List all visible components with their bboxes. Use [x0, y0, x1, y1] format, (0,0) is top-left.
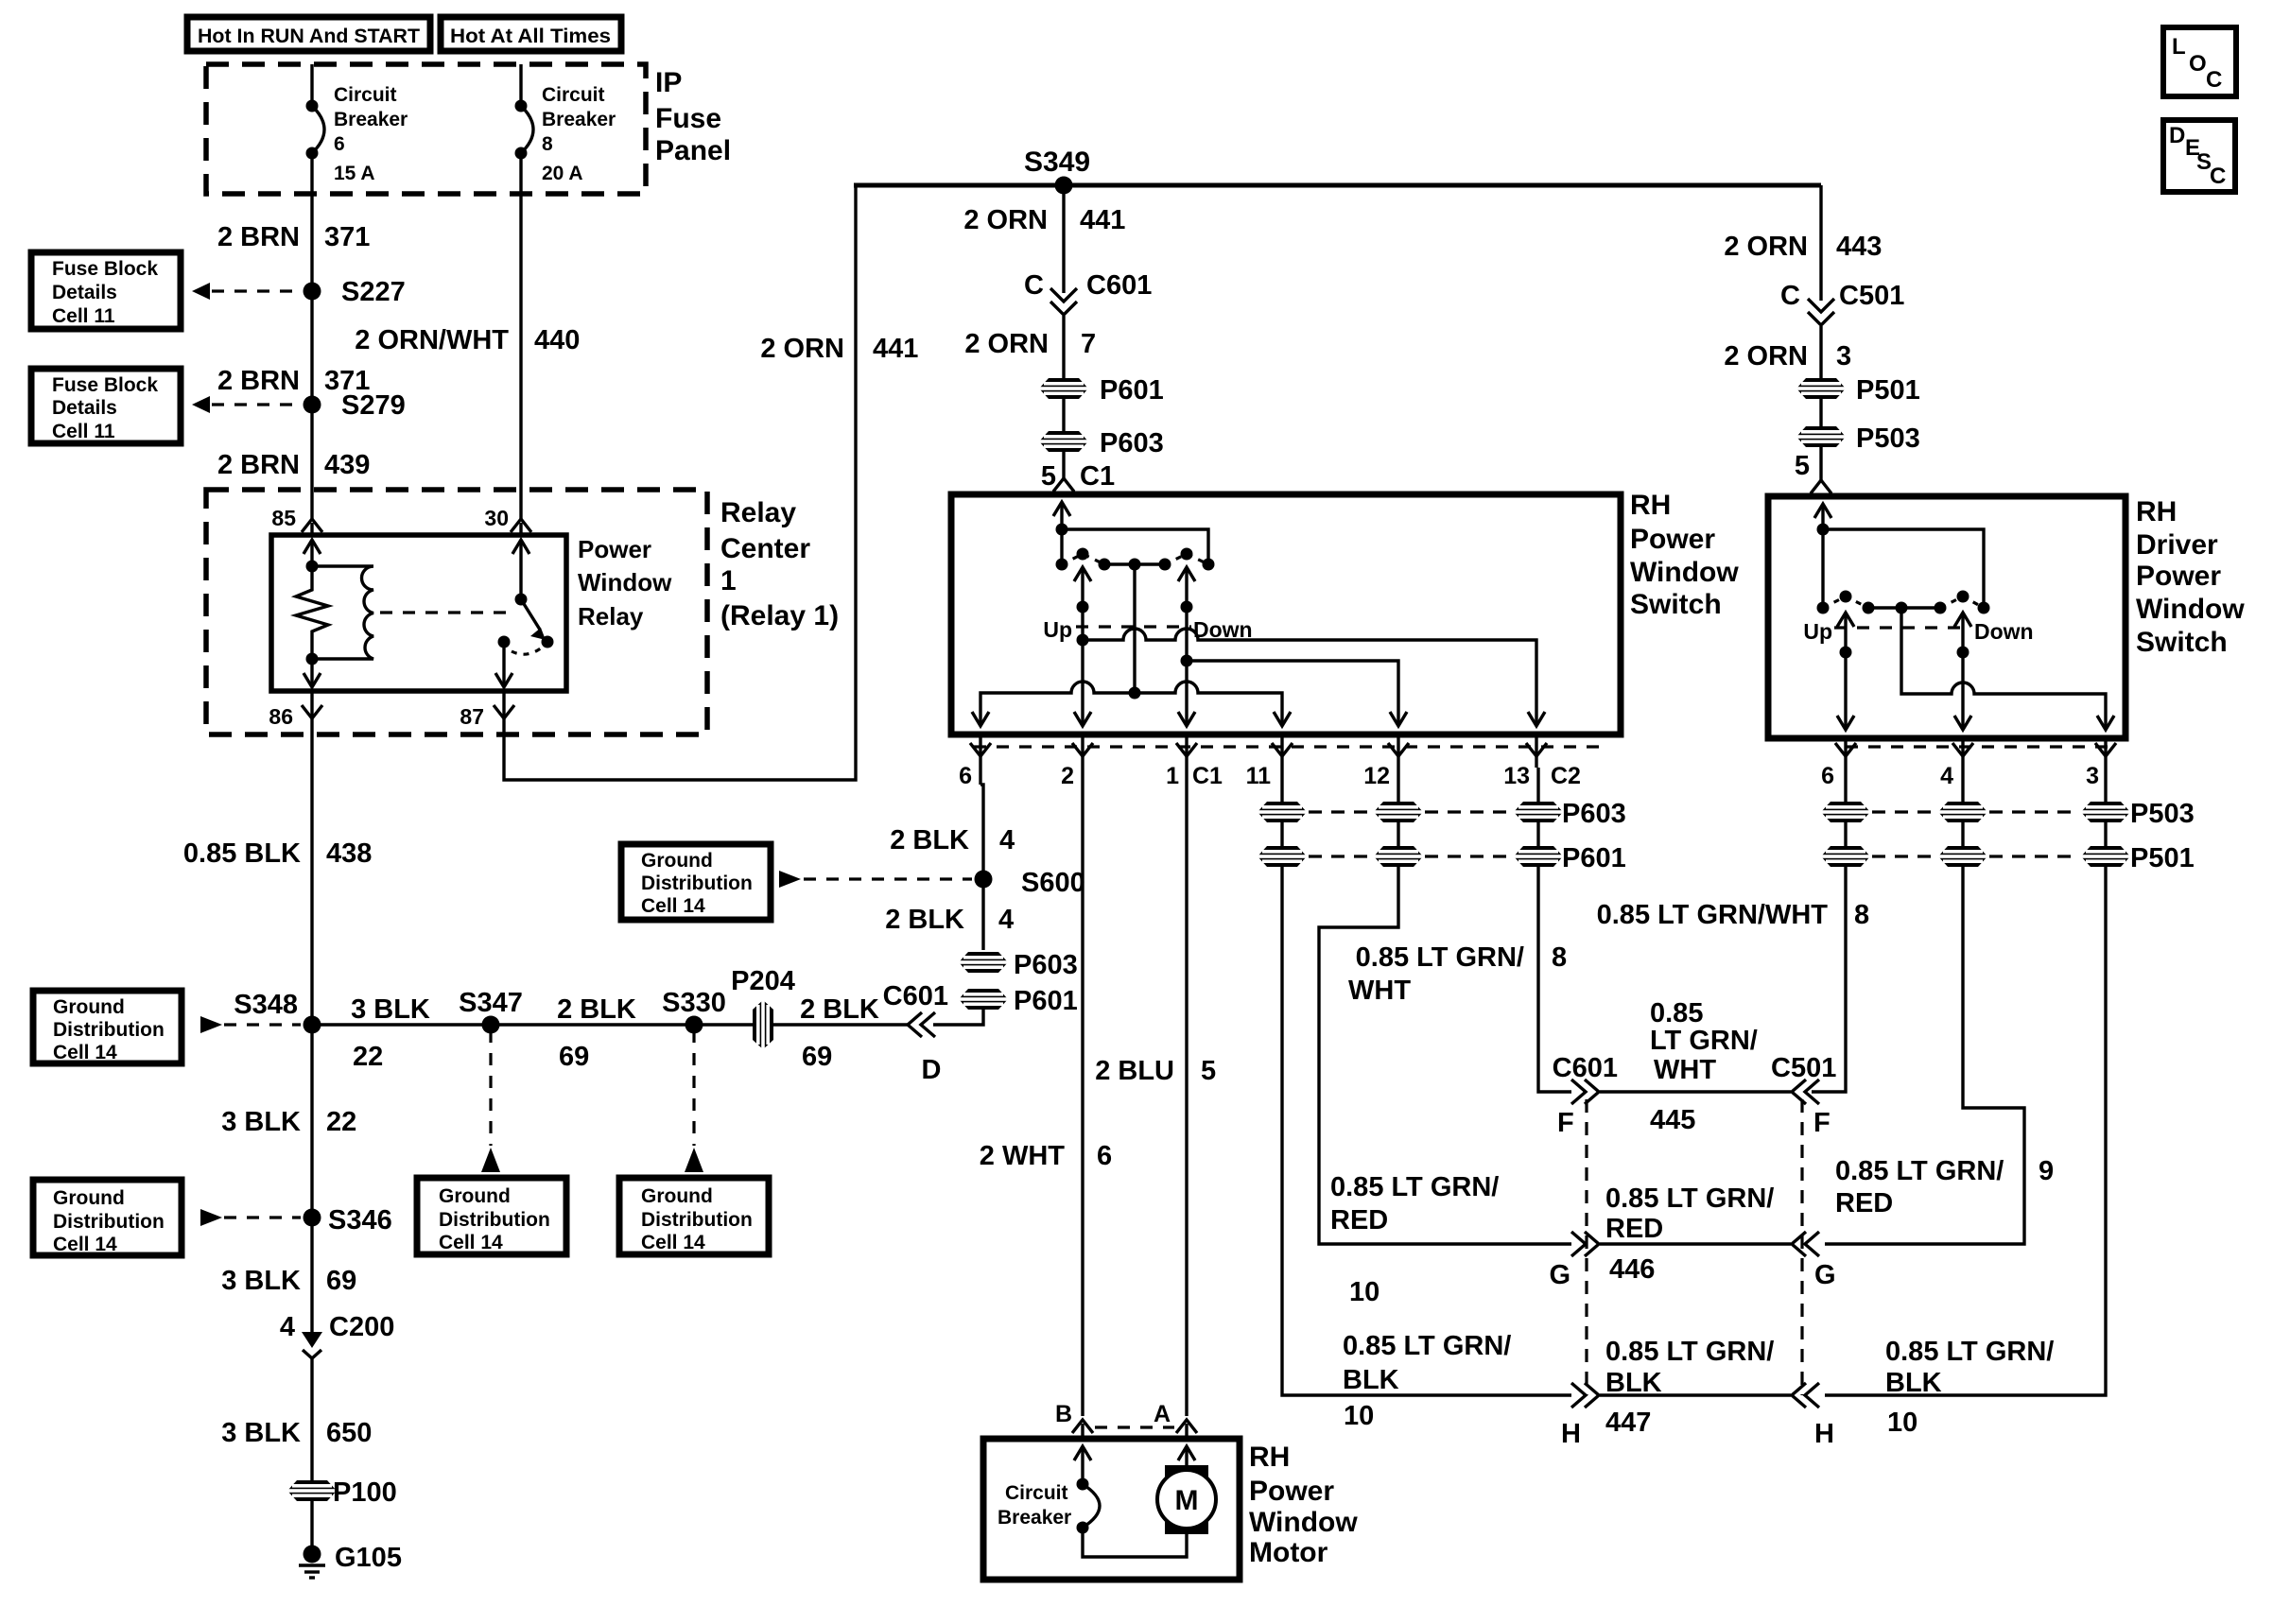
label 2 BLK 4 lower — [885, 905, 1014, 935]
svg-text:69: 69 — [802, 1042, 832, 1072]
svg-text:H: H — [1814, 1419, 1834, 1449]
svg-text:441: 441 — [873, 334, 918, 364]
pin 87 exit fork — [460, 704, 514, 729]
right switch feed arrow — [1814, 504, 1831, 608]
svg-text:3 BLK: 3 BLK — [221, 1418, 301, 1448]
svg-text:Up: Up — [1043, 617, 1072, 642]
pin 12 fork and label — [1363, 734, 1409, 789]
splice S348 — [234, 990, 321, 1034]
svg-text:2 BLK: 2 BLK — [800, 994, 879, 1025]
svg-text:443: 443 — [1836, 232, 1882, 262]
svg-text:B: B — [1055, 1401, 1072, 1427]
svg-text:0.85 LT GRN/: 0.85 LT GRN/ — [1605, 1183, 1774, 1214]
F chevron left at C501 — [1771, 1053, 1836, 1138]
pin 1 fork and label C1 — [1166, 734, 1223, 789]
svg-text:2 BRN: 2 BRN — [217, 366, 300, 396]
G chevron left at C501 — [1792, 1232, 1836, 1290]
svg-text:2 BLK: 2 BLK — [885, 905, 964, 935]
label 2 BLU 5 — [1095, 1056, 1216, 1086]
svg-text:Ground: Ground — [439, 1185, 511, 1207]
grommet P601 on ground wire — [959, 986, 1078, 1016]
rocker down arm dashed — [1165, 554, 1208, 564]
svg-text:IP: IP — [655, 67, 682, 98]
svg-text:Relay: Relay — [720, 497, 796, 528]
svg-text:G: G — [1549, 1260, 1570, 1290]
wire 441 relay 87 to S349 — [504, 185, 856, 780]
wire 371/439 from breaker 6 to relay pin 85 — [310, 153, 313, 519]
svg-text:6: 6 — [334, 133, 345, 155]
dashed arrow from box to S600 — [779, 871, 972, 888]
relay switch pin30 arrow — [512, 540, 529, 606]
grommet P603 — [1039, 428, 1164, 458]
pin 2 fork and label — [1061, 734, 1093, 789]
dashed arrow to S279 — [192, 396, 301, 413]
dashed vertical S347 to ground box — [489, 1030, 492, 1146]
relay switch contact 87 — [495, 636, 512, 688]
svg-text:Motor: Motor — [1249, 1537, 1328, 1568]
motor armature input arrow — [1178, 1446, 1195, 1471]
relay coil bottom junction — [304, 653, 321, 688]
svg-text:Breaker: Breaker — [334, 109, 408, 130]
grommets P503 row pins 6 4 3 — [1821, 799, 2195, 829]
wire breaker8 top stub — [519, 64, 522, 106]
label 2 ORN 7 — [964, 329, 1096, 359]
svg-text:5: 5 — [1041, 461, 1056, 492]
wire 446 between G connectors — [1600, 1242, 1791, 1245]
label 2 BLK 69 second — [800, 994, 879, 1072]
svg-text:86: 86 — [269, 704, 293, 729]
label 0.85 BLK 438 — [183, 838, 373, 869]
svg-text:P601: P601 — [1014, 986, 1078, 1016]
right rocker down arm dashed — [1940, 596, 1984, 608]
svg-text:4: 4 — [999, 825, 1015, 855]
F chevron right at C601 — [1553, 1053, 1618, 1138]
svg-text:S279: S279 — [341, 390, 406, 421]
right pin 6 fork and label — [1821, 738, 1856, 789]
pin 6 fork and label — [959, 734, 991, 789]
label 0.85 LT GRN/WHT 8 — [1597, 900, 1870, 930]
label 0.85 LT GRN/ 8 WHT pin13 — [1348, 942, 1567, 1006]
svg-text:P100: P100 — [333, 1477, 397, 1508]
label 2 ORN 443 — [1724, 232, 1882, 262]
svg-text:5: 5 — [1795, 451, 1810, 481]
svg-text:22: 22 — [353, 1042, 383, 1072]
wire pin12 jog to G chevron — [1319, 867, 1571, 1244]
svg-text:Cell 14: Cell 14 — [641, 895, 705, 917]
svg-text:WHT: WHT — [1654, 1055, 1716, 1085]
wire 441 S349 down — [1062, 185, 1065, 293]
relay resistor — [296, 566, 328, 659]
splice S346 — [304, 1205, 392, 1235]
label RH Power Window Motor — [1249, 1442, 1358, 1568]
triangle arrow S330 box — [685, 1148, 703, 1172]
wire pin1 to motor A — [1185, 768, 1188, 1416]
right pin3 wire down — [1825, 768, 2106, 1395]
right up-down dashed line — [1834, 626, 1967, 629]
wire 447 between H connectors — [1600, 1393, 1791, 1396]
RH power window switch box — [951, 494, 1621, 734]
svg-text:10: 10 — [1887, 1408, 1917, 1438]
svg-text:C: C — [1780, 281, 1800, 311]
label 0.85 LT GRN/ BLK 10 right — [1885, 1337, 2054, 1438]
rocker T bar — [1099, 559, 1171, 571]
down output wire pin 1 — [1178, 567, 1195, 726]
hot in run and start box — [187, 17, 430, 51]
svg-text:Breaker: Breaker — [542, 109, 616, 130]
up stationary contact — [1056, 559, 1068, 571]
svg-text:D: D — [2169, 123, 2185, 148]
pin11 exit arrow — [1274, 712, 1291, 726]
svg-text:5: 5 — [1201, 1056, 1216, 1086]
svg-text:C501: C501 — [1839, 281, 1904, 311]
svg-text:G105: G105 — [335, 1543, 402, 1573]
wire pin12 down — [1397, 768, 1399, 802]
svg-text:Cell 14: Cell 14 — [53, 1234, 117, 1255]
svg-text:7: 7 — [1081, 329, 1096, 359]
svg-text:Cell 14: Cell 14 — [439, 1232, 503, 1253]
wire pin6 to S600 to P601 — [979, 768, 981, 785]
motor connector dashed — [1095, 1425, 1174, 1428]
label 3 BLK 22 — [351, 994, 430, 1072]
ground bus wire — [312, 1023, 910, 1026]
svg-text:Ground: Ground — [53, 996, 125, 1018]
svg-text:2 BLU: 2 BLU — [1095, 1056, 1174, 1086]
grommet P501 — [1796, 375, 1920, 406]
LOC box — [2163, 27, 2236, 96]
right rocker up arm dashed — [1823, 596, 1868, 608]
C501 connector boundary dashed — [1800, 1099, 1803, 1395]
svg-text:Circuit: Circuit — [1005, 1482, 1068, 1504]
svg-text:447: 447 — [1605, 1408, 1651, 1438]
hot at all times box — [441, 17, 621, 51]
power window relay box — [271, 535, 566, 691]
svg-text:P501: P501 — [1856, 375, 1920, 406]
svg-text:P204: P204 — [731, 966, 795, 996]
svg-text:13: 13 — [1503, 763, 1530, 789]
svg-text:Cell 11: Cell 11 — [52, 305, 115, 327]
splice S279 — [304, 390, 406, 421]
splice S347 — [459, 988, 523, 1034]
label 3 BLK 650 — [221, 1418, 372, 1448]
svg-text:L: L — [2172, 34, 2186, 60]
svg-text:H: H — [1561, 1419, 1581, 1449]
T bar center wire to pin6/11 rail — [1129, 564, 1141, 700]
svg-text:2 WHT: 2 WHT — [980, 1141, 1066, 1171]
svg-text:445: 445 — [1650, 1105, 1695, 1135]
svg-text:10: 10 — [1349, 1277, 1379, 1307]
svg-text:2 BRN: 2 BRN — [217, 450, 300, 480]
svg-text:10: 10 — [1344, 1401, 1374, 1431]
label RH Driver Power Window Switch — [2136, 496, 2245, 658]
motor circuit breaker — [998, 1478, 1100, 1534]
svg-text:O: O — [2189, 51, 2207, 77]
right down stationary contact — [1978, 602, 1990, 614]
wire pin11 to H chevron — [1282, 867, 1571, 1395]
svg-text:C501: C501 — [1771, 1053, 1836, 1083]
svg-text:P603: P603 — [1014, 950, 1078, 980]
svg-text:S346: S346 — [328, 1205, 392, 1235]
S349 bus wire — [854, 183, 1821, 188]
inline connector C C501 — [1780, 281, 1904, 325]
inline connector C601 D chevron — [883, 981, 948, 1085]
motor A label and fork — [1154, 1401, 1197, 1439]
right up output wire pin 6 — [1837, 613, 1854, 730]
ground distribution cell 14 box S346 — [33, 1180, 182, 1255]
svg-text:2 BLK: 2 BLK — [890, 825, 969, 855]
grommets P501 row pins 6 4 3 — [1821, 843, 2195, 873]
svg-text:4: 4 — [280, 1312, 295, 1342]
dashed vertical S330 to ground box — [692, 1030, 695, 1146]
rail pin6 to pin11 with hops — [980, 682, 1282, 724]
svg-text:RED: RED — [1835, 1188, 1893, 1218]
RH power window motor box — [983, 1439, 1240, 1580]
pin3 exit arrow — [2097, 716, 2114, 730]
svg-text:S600: S600 — [1021, 868, 1085, 898]
svg-text:650: 650 — [326, 1418, 372, 1448]
motor breaker input arrow — [1074, 1446, 1091, 1484]
relay coil input arrow pin 85 — [304, 540, 321, 573]
splice S349 — [1024, 147, 1090, 195]
svg-text:439: 439 — [324, 450, 370, 480]
rocker up arm dashed — [1062, 554, 1104, 564]
svg-text:441: 441 — [1080, 205, 1125, 235]
svg-text:446: 446 — [1609, 1254, 1655, 1285]
svg-text:0.85 LT GRN/WHT: 0.85 LT GRN/WHT — [1597, 900, 1829, 930]
pin 85 entry fork — [271, 506, 322, 533]
svg-text:C200: C200 — [329, 1312, 394, 1342]
pin 30 entry fork — [484, 506, 531, 533]
svg-text:0.85 BLK: 0.85 BLK — [183, 838, 301, 869]
label 2 ORN 441 left — [760, 334, 918, 364]
label 2 ORN 441 mid — [963, 205, 1125, 235]
svg-text:Driver: Driver — [2136, 529, 2218, 561]
label 2 WHT 6 — [980, 1141, 1112, 1171]
svg-text:0.85 LT GRN/: 0.85 LT GRN/ — [1356, 942, 1524, 973]
svg-text:6: 6 — [959, 763, 972, 789]
svg-text:0.85 LT GRN/: 0.85 LT GRN/ — [1835, 1156, 2004, 1186]
svg-text:2 BLK: 2 BLK — [557, 994, 636, 1025]
RH driver power window switch box — [1768, 496, 2126, 738]
svg-text:Window: Window — [2136, 594, 2245, 625]
label RH Power Window Switch — [1630, 490, 1739, 620]
svg-text:F: F — [1813, 1108, 1831, 1138]
label 2 ORN 3 — [1724, 341, 1851, 371]
svg-text:C: C — [2206, 67, 2222, 93]
pin6 exit arrow — [972, 712, 989, 726]
relay coil-switch dashed link — [380, 611, 509, 613]
svg-text:0.85 LT GRN/: 0.85 LT GRN/ — [1885, 1337, 2054, 1367]
svg-text:P603: P603 — [1562, 799, 1626, 829]
rail to pin 12 — [1187, 661, 1398, 724]
wire 650 below C200 — [310, 1358, 313, 1547]
svg-text:BLK: BLK — [1885, 1368, 1942, 1398]
up output wire pin 2 — [1074, 567, 1091, 726]
svg-text:P501: P501 — [2130, 843, 2195, 873]
svg-text:12: 12 — [1363, 763, 1390, 789]
switch feed arrow — [1053, 502, 1070, 564]
svg-text:P601: P601 — [1562, 843, 1626, 873]
svg-text:Distribution: Distribution — [439, 1209, 550, 1231]
right switch branch to down contact — [1823, 529, 1984, 608]
svg-text:Ground: Ground — [53, 1187, 125, 1209]
svg-text:P603: P603 — [1100, 428, 1164, 458]
svg-text:8: 8 — [1854, 900, 1869, 930]
wire 443 down from bus — [1819, 185, 1822, 301]
svg-text:Circuit: Circuit — [542, 84, 605, 106]
svg-text:Power: Power — [1630, 524, 1715, 555]
svg-text:6: 6 — [1097, 1141, 1112, 1171]
rocker apex dots — [1077, 548, 1193, 561]
ground distribution cell 14 box under S330 — [619, 1178, 769, 1254]
svg-text:S349: S349 — [1024, 147, 1090, 178]
svg-text:9: 9 — [2039, 1156, 2054, 1186]
pin13 exit arrow — [1528, 712, 1545, 726]
C601 connector boundary dashed — [1585, 1099, 1588, 1395]
svg-text:Switch: Switch — [1630, 589, 1722, 620]
svg-text:S347: S347 — [459, 988, 523, 1018]
grommet P503 — [1796, 423, 1920, 454]
svg-text:BLK: BLK — [1605, 1368, 1662, 1398]
svg-text:RED: RED — [1330, 1205, 1388, 1235]
svg-text:2 ORN/WHT: 2 ORN/WHT — [355, 325, 509, 355]
svg-text:P503: P503 — [2130, 799, 2195, 829]
svg-text:4: 4 — [1940, 763, 1953, 789]
svg-text:A: A — [1154, 1401, 1171, 1427]
label 0.85 LT GRN/ RED 446 mid — [1605, 1183, 1774, 1285]
wire 3 to P501 — [1819, 326, 1822, 480]
svg-text:Panel: Panel — [655, 135, 731, 166]
svg-text:Switch: Switch — [2136, 627, 2228, 658]
label 0.85 LT GRN/ WHT 445 — [1650, 998, 1758, 1135]
svg-text:Distribution: Distribution — [641, 1209, 753, 1231]
svg-text:C601: C601 — [1086, 270, 1152, 301]
label 3 BLK 69 — [221, 1266, 356, 1296]
fuse block details cell 11 box 2 — [31, 369, 181, 443]
label 0.85 LT GRN/ RED 10 pin12 — [1330, 1172, 1499, 1307]
svg-text:Power: Power — [1249, 1476, 1334, 1507]
grommet P601 — [1039, 375, 1164, 406]
svg-text:C601: C601 — [883, 981, 948, 1011]
svg-text:Details: Details — [52, 397, 117, 419]
fuse block details cell 11 box 1 — [31, 252, 181, 329]
svg-text:85: 85 — [271, 506, 296, 530]
svg-text:3 BLK: 3 BLK — [221, 1266, 301, 1296]
right down output wire pin 4 — [1954, 613, 1971, 730]
circuit breaker 6 — [306, 84, 408, 184]
svg-text:11: 11 — [1246, 763, 1272, 789]
dashed arrow from box to S346 — [200, 1209, 301, 1226]
svg-text:Hot At All Times: Hot At All Times — [450, 26, 611, 47]
relay switch arc dashed — [512, 648, 542, 654]
svg-text:C601: C601 — [1553, 1053, 1618, 1083]
label 2 BRN 371 — [217, 222, 370, 252]
svg-text:P601: P601 — [1100, 375, 1164, 406]
motor breaker to motor bottom wire — [1083, 1528, 1187, 1557]
H chevron right at C601 — [1561, 1383, 1599, 1449]
switch entry fork — [1053, 478, 1074, 492]
svg-text:20 A: 20 A — [542, 163, 583, 184]
right T center wire to pin 3 rail with hop — [1901, 608, 2106, 728]
splice S330 — [662, 988, 726, 1034]
svg-text:Power: Power — [578, 535, 651, 563]
svg-text:Window: Window — [1249, 1507, 1358, 1538]
label 0.85 LT GRN/ BLK 10 pin11 — [1343, 1331, 1511, 1431]
svg-text:4: 4 — [998, 905, 1014, 935]
svg-text:BLK: BLK — [1343, 1365, 1399, 1395]
grommets P601 row pins 11 12 13 — [1258, 843, 1626, 873]
svg-text:LT GRN/: LT GRN/ — [1650, 1026, 1758, 1056]
svg-text:371: 371 — [324, 222, 370, 252]
grommet P603 on ground wire — [959, 950, 1078, 980]
dashed arrow to S227 — [192, 283, 301, 300]
svg-text:D: D — [922, 1055, 942, 1085]
grommet P204 — [731, 966, 795, 1049]
motor B label and fork — [1055, 1401, 1093, 1439]
svg-text:3: 3 — [2086, 763, 2099, 789]
label 3 BLK 22 vertical — [221, 1107, 356, 1137]
svg-text:3 BLK: 3 BLK — [351, 994, 430, 1025]
svg-text:Window: Window — [578, 568, 672, 596]
inline connector 4 C200 — [280, 1312, 394, 1358]
svg-text:Distribution: Distribution — [53, 1211, 165, 1233]
ground distribution cell 14 box S348 — [33, 991, 182, 1063]
ground G105 — [299, 1543, 402, 1578]
svg-text:8: 8 — [1552, 942, 1567, 973]
svg-text:69: 69 — [559, 1042, 589, 1072]
svg-text:Window: Window — [1630, 557, 1739, 588]
svg-text:C1: C1 — [1192, 763, 1223, 789]
IP fuse panel dashed box — [206, 64, 646, 194]
right connector dashed boundary — [1846, 745, 2118, 748]
svg-text:Cell 14: Cell 14 — [641, 1232, 705, 1253]
label 2 BLK 4 upper — [890, 825, 1015, 855]
svg-text:22: 22 — [326, 1107, 356, 1137]
rail to pin 13 with hops — [1083, 629, 1536, 724]
svg-text:Up: Up — [1803, 619, 1832, 644]
svg-text:0.85: 0.85 — [1650, 998, 1703, 1028]
svg-text:8: 8 — [542, 133, 553, 155]
svg-text:Hot In RUN And START: Hot In RUN And START — [198, 26, 420, 47]
DESC box — [2163, 120, 2235, 192]
svg-text:2 ORN: 2 ORN — [760, 334, 844, 364]
circuit breaker 8 — [515, 84, 616, 184]
svg-text:30: 30 — [484, 506, 509, 530]
label 0.85 LT GRN/ BLK 447 mid — [1605, 1337, 1774, 1438]
svg-text:2 ORN: 2 ORN — [963, 205, 1048, 235]
svg-text:0.85 LT GRN/: 0.85 LT GRN/ — [1605, 1337, 1774, 1367]
svg-text:Relay: Relay — [578, 602, 644, 631]
svg-text:RH: RH — [1630, 490, 1671, 521]
label Relay Center 1 (Relay 1) — [720, 497, 839, 631]
svg-text:Cell 11: Cell 11 — [52, 421, 115, 442]
connector C1/C2 dashed boundary — [974, 745, 1607, 748]
wire pin2 to motor B — [1081, 768, 1084, 1416]
svg-text:S227: S227 — [341, 277, 406, 307]
wire breaker6 top stub — [310, 64, 313, 106]
right rocker apex dots — [1840, 591, 1969, 603]
svg-text:S348: S348 — [234, 990, 298, 1020]
motor M symbol — [1157, 1465, 1216, 1534]
svg-text:Fuse Block: Fuse Block — [52, 258, 158, 280]
svg-text:C2: C2 — [1551, 763, 1581, 789]
label 5 C1 — [1041, 461, 1115, 492]
splice S227 — [304, 277, 406, 307]
G chevron right at C601 — [1549, 1232, 1599, 1290]
pin 13 fork and label C2 — [1503, 734, 1581, 789]
relay switch arm — [521, 599, 554, 648]
down stationary contact — [1203, 559, 1215, 571]
svg-text:F: F — [1557, 1108, 1574, 1138]
